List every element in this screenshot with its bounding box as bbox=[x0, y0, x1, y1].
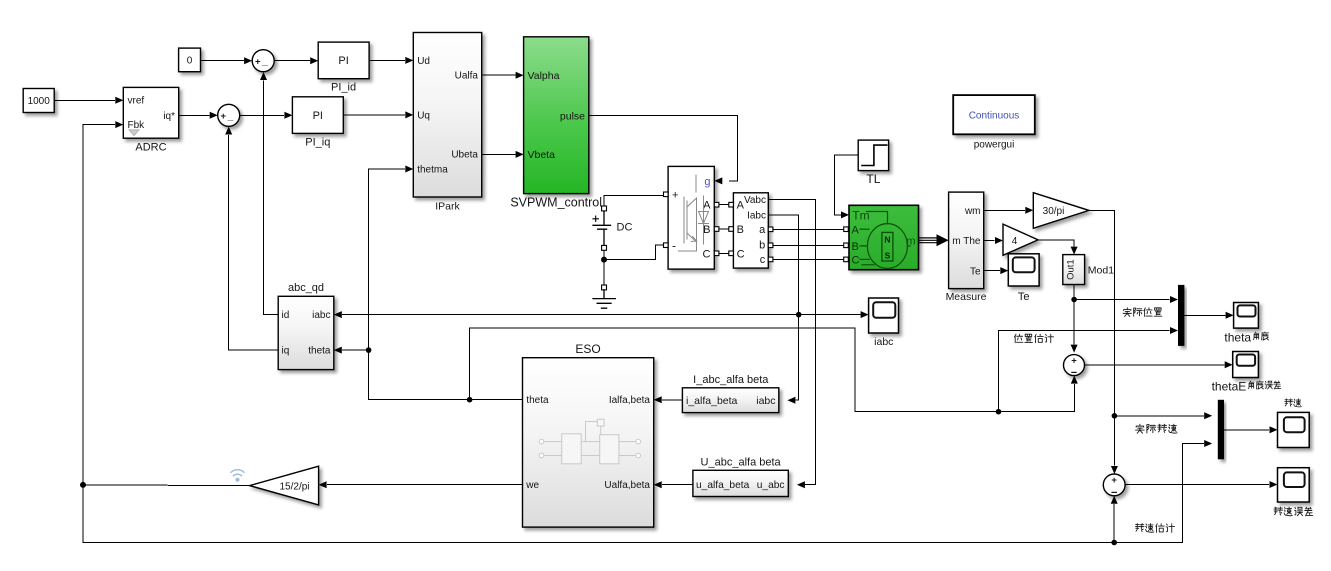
svg-text:DC: DC bbox=[617, 222, 633, 234]
scope theta angle bbox=[1234, 303, 1259, 329]
svg-text:15/2/pi: 15/2/pi bbox=[279, 481, 309, 492]
gain 15/2/pi bbox=[250, 466, 319, 505]
wire position estimate to sum3 minus bbox=[999, 384, 1075, 411]
svg-text:ESO: ESO bbox=[575, 342, 600, 356]
svg-text:theta: theta bbox=[526, 395, 549, 406]
svg-text:powergui: powergui bbox=[974, 139, 1015, 150]
svg-text:_: _ bbox=[261, 56, 268, 68]
svg-text:Uq: Uq bbox=[417, 110, 430, 121]
svg-text:we: we bbox=[525, 480, 539, 491]
wire bottom line up to sum4 minus bbox=[1113, 505, 1115, 543]
svg-text:C: C bbox=[852, 255, 860, 267]
svg-text:−: − bbox=[1071, 367, 1077, 379]
port square meas A bbox=[729, 202, 734, 207]
wire mux1 to theta scope bbox=[1184, 314, 1224, 316]
mux1 theta bbox=[1178, 285, 1184, 346]
svg-text:U_abc_alfa beta: U_abc_alfa beta bbox=[701, 456, 782, 468]
svg-text:Te: Te bbox=[1018, 291, 1030, 303]
wire PI_iq to IPark Uq bbox=[343, 114, 404, 116]
wire bridge A to measurement A bbox=[719, 204, 729, 206]
wifi logging badge bbox=[231, 470, 244, 482]
wire bridge B to measurement B bbox=[719, 228, 729, 230]
svg-text:i_alfa_beta: i_alfa_beta bbox=[686, 395, 738, 407]
port square ground bbox=[602, 285, 607, 290]
svg-text:0: 0 bbox=[187, 56, 193, 67]
subsystem IPark bbox=[413, 33, 481, 198]
svg-text:Ubeta: Ubeta bbox=[451, 150, 478, 161]
svg-text:Ud: Ud bbox=[417, 56, 430, 67]
wire ESO theta output bbox=[369, 350, 523, 400]
svg-text:S: S bbox=[885, 250, 891, 260]
svg-text:vref: vref bbox=[128, 95, 145, 106]
svg-text:PI: PI bbox=[313, 110, 323, 122]
sum junction S2 bbox=[218, 104, 240, 126]
gain 30/pi bbox=[1033, 193, 1089, 229]
svg-text:A: A bbox=[703, 200, 711, 212]
svg-text:iq*: iq* bbox=[163, 111, 175, 122]
svg-text:iabc: iabc bbox=[312, 310, 330, 321]
svg-text:m: m bbox=[906, 236, 915, 248]
wire 1000 to ADRC vref bbox=[54, 99, 114, 101]
wire iq feedback into sum2 bottom bbox=[229, 135, 279, 350]
wire DC minus to ground bbox=[603, 260, 605, 285]
mux2 speed bbox=[1218, 400, 1224, 460]
wire position estimate up to mux1 bbox=[999, 331, 1170, 412]
wire pulse to bridge g bbox=[589, 116, 738, 181]
DC voltage source battery bbox=[593, 211, 611, 246]
port square bridge minus bbox=[664, 243, 669, 248]
label position estimate bbox=[1014, 334, 1022, 343]
wire iabc line to iabc scope bbox=[799, 314, 860, 316]
svg-text:Out1: Out1 bbox=[1066, 259, 1077, 280]
svg-text:Ualfa: Ualfa bbox=[455, 71, 479, 82]
label actual position bbox=[1123, 308, 1131, 317]
scope Te bbox=[1008, 254, 1039, 286]
port square meas a bbox=[768, 227, 773, 232]
PI controller PI_id bbox=[318, 42, 369, 79]
svg-text:PI_iq: PI_iq bbox=[305, 136, 330, 148]
svg-text:iabc: iabc bbox=[756, 395, 775, 407]
sum junction S3 bbox=[1064, 355, 1085, 376]
universal bridge inverter bbox=[668, 166, 714, 269]
PI controller PI_iq bbox=[292, 97, 343, 134]
wire meas c to motor C bbox=[773, 258, 844, 260]
port square battery bottom bbox=[602, 245, 607, 250]
node position estimate junction bbox=[996, 409, 1002, 415]
port square meas b bbox=[768, 243, 773, 248]
svg-text:thetaE: thetaE bbox=[1212, 379, 1247, 393]
port square motor C bbox=[844, 257, 849, 262]
svg-text:b: b bbox=[759, 240, 765, 252]
svg-text:Tm: Tm bbox=[852, 208, 869, 222]
svg-text:a: a bbox=[759, 224, 766, 236]
svg-text:C: C bbox=[737, 248, 745, 260]
svg-text:Valpha: Valpha bbox=[528, 70, 560, 82]
gain 4 bbox=[1003, 224, 1038, 255]
wire TL to motor Tm bbox=[835, 155, 859, 215]
wire iabc line into abc_qd bbox=[343, 314, 799, 316]
svg-text:IPark: IPark bbox=[435, 201, 460, 213]
svg-text:B: B bbox=[703, 224, 710, 236]
wire Out1 down to mux1 and sum3 bbox=[1074, 285, 1169, 344]
wire sum3 to thetaE scope bbox=[1085, 364, 1224, 366]
svg-text:PI_id: PI_id bbox=[331, 82, 356, 94]
wire Fbk feedback vertical bbox=[83, 125, 115, 485]
wire sum1 to PI_id bbox=[274, 60, 309, 62]
port square meas c bbox=[768, 257, 773, 262]
svg-text:Continuous: Continuous bbox=[969, 110, 1020, 121]
wire meas a to motor A bbox=[773, 228, 844, 230]
wire gain output to feedback node bbox=[83, 484, 250, 487]
wire wm to gain 30/pi bbox=[984, 209, 1025, 211]
sum junction S1 bbox=[252, 50, 274, 72]
svg-text:TL: TL bbox=[866, 172, 880, 186]
svg-text:pulse: pulse bbox=[560, 110, 585, 122]
port square motor B bbox=[844, 243, 849, 248]
label speed error bbox=[1274, 507, 1283, 515]
port square bridge plus bbox=[664, 192, 669, 197]
wire Te to scope bbox=[984, 270, 1000, 272]
wire actual speed to mux2 bbox=[1114, 415, 1203, 417]
node Iabc junction on iabc line bbox=[796, 312, 802, 318]
svg-text:m: m bbox=[952, 236, 960, 247]
node bottom line junction bbox=[1111, 540, 1117, 546]
svg-text:ADRC: ADRC bbox=[135, 142, 166, 154]
wire 30/pi output actual speed line bbox=[1089, 210, 1115, 465]
wire DC minus to bridge minus bbox=[604, 245, 664, 259]
wire mux2 to speed scope bbox=[1224, 429, 1269, 431]
svg-text:wm: wm bbox=[964, 206, 981, 217]
wire sum4 to speed error scope bbox=[1125, 484, 1269, 486]
svg-text:c: c bbox=[760, 254, 766, 266]
scope iabc bbox=[869, 298, 899, 333]
ESO ghost preview sketch bbox=[539, 419, 640, 464]
node actual speed junction bbox=[1112, 413, 1118, 419]
badge gray triangle under Fbk bbox=[129, 130, 139, 136]
subsystem SVPWM_control bbox=[524, 37, 589, 194]
node speed feedback junction bbox=[80, 482, 86, 488]
svg-text:Iabc: Iabc bbox=[747, 211, 766, 222]
node theta junction bbox=[366, 347, 372, 353]
wire sum2 to PI_iq bbox=[240, 114, 284, 116]
node DC minus junction bbox=[601, 257, 607, 263]
port square battery top bbox=[602, 206, 607, 211]
svg-text:+: + bbox=[1071, 355, 1077, 366]
port square motor A bbox=[844, 227, 849, 232]
wire bridge C to measurement C bbox=[719, 252, 729, 254]
wire IPark Ubeta to SVPWM Vbeta bbox=[482, 153, 515, 155]
svg-text:−: − bbox=[1111, 487, 1117, 499]
svg-text:+: + bbox=[255, 57, 261, 68]
scope speed bbox=[1278, 412, 1310, 447]
wire ADRC iq* to sum2 bbox=[179, 114, 209, 116]
svg-text:abc_qd: abc_qd bbox=[288, 282, 324, 294]
wire theta to IPark thetma bbox=[369, 169, 405, 350]
three-phase VI measurement block bbox=[733, 193, 768, 268]
label speed estimate bbox=[1135, 524, 1144, 532]
svg-text:Ialfa,beta: Ialfa,beta bbox=[609, 395, 651, 406]
outport block Out1 / Mod1 bbox=[1063, 255, 1085, 285]
sum junction S4 bbox=[1103, 474, 1125, 496]
ground symbol bbox=[593, 290, 615, 308]
svg-text:C: C bbox=[703, 248, 711, 260]
svg-text:-: - bbox=[672, 239, 676, 253]
port square bridge A bbox=[714, 202, 719, 207]
wire Iabc down to I_abc iabc bbox=[768, 215, 798, 400]
node Out1 junction bbox=[1071, 297, 1077, 303]
svg-text:iq: iq bbox=[282, 346, 290, 357]
svg-text:N: N bbox=[884, 235, 890, 245]
subsystem Measure bbox=[949, 192, 984, 289]
wire 0 to sum1 bbox=[201, 60, 244, 62]
label actual speed bbox=[1136, 424, 1145, 433]
svg-text:Ualfa,beta: Ualfa,beta bbox=[604, 480, 650, 491]
svg-text:Te: Te bbox=[970, 266, 981, 277]
svg-text:iabc: iabc bbox=[874, 336, 893, 348]
port square bridge B bbox=[714, 227, 719, 232]
constant block 0 bbox=[179, 48, 201, 72]
wire speed feedback bottom line bbox=[83, 444, 1203, 543]
svg-text:Mod1: Mod1 bbox=[1088, 265, 1114, 277]
svg-text:+: + bbox=[672, 189, 678, 201]
svg-text:u_abc: u_abc bbox=[757, 480, 785, 491]
svg-text:Fbk: Fbk bbox=[128, 120, 146, 131]
wire U_abc to ESO Ualfa,beta bbox=[663, 484, 693, 486]
svg-text:SVPWM_control: SVPWM_control bbox=[510, 196, 602, 210]
subsystem ADRC bbox=[123, 87, 178, 138]
svg-text:theta: theta bbox=[1224, 330, 1251, 344]
wire id feedback into sum1 bottom bbox=[264, 81, 279, 315]
port square meas B bbox=[729, 227, 734, 232]
wire motor m bus to Measure bbox=[919, 238, 938, 243]
svg-text:g: g bbox=[704, 176, 710, 188]
svg-text:thetma: thetma bbox=[417, 165, 448, 176]
svg-text:B: B bbox=[737, 224, 744, 236]
svg-text:I_abc_alfa beta: I_abc_alfa beta bbox=[693, 374, 769, 386]
svg-text:A: A bbox=[852, 224, 860, 236]
svg-text:PI: PI bbox=[338, 55, 348, 67]
step source TL bbox=[858, 140, 888, 171]
wire ESO we output to gain bbox=[328, 484, 523, 486]
svg-text:B: B bbox=[852, 241, 859, 253]
wire theta into abc_qd bbox=[343, 349, 369, 351]
svg-text:Vbeta: Vbeta bbox=[528, 149, 556, 161]
svg-text:+: + bbox=[1111, 475, 1117, 486]
wire meas b to motor B bbox=[773, 244, 844, 246]
constant block 1000 bbox=[23, 89, 54, 113]
PMSM motor block bbox=[849, 205, 919, 269]
label speed bbox=[1285, 399, 1293, 406]
svg-text:30/pi: 30/pi bbox=[1043, 206, 1065, 217]
wire IPark Ualfa to SVPWM Valpha bbox=[482, 74, 515, 76]
wire gain 4 to Out1 bbox=[1038, 240, 1074, 246]
port square bridge C bbox=[714, 251, 719, 256]
svg-text:+: + bbox=[221, 111, 227, 122]
wire The to gain 4 bbox=[984, 240, 995, 242]
IGBT diode sketch inside bridge bbox=[679, 175, 709, 251]
wire Vabc down to u_abc bbox=[768, 200, 815, 485]
powergui block bbox=[953, 95, 1035, 134]
svg-text:u_alfa_beta: u_alfa_beta bbox=[696, 480, 750, 491]
svg-text:theta: theta bbox=[308, 346, 331, 357]
svg-text:1000: 1000 bbox=[28, 96, 51, 107]
svg-text:_: _ bbox=[227, 110, 234, 122]
scope speed error bbox=[1278, 468, 1310, 502]
svg-text:The: The bbox=[963, 236, 981, 247]
scope thetaE error bbox=[1233, 352, 1259, 378]
node theta branch junction bbox=[467, 397, 473, 403]
svg-text:Vabc: Vabc bbox=[744, 195, 766, 206]
wire position estimate branch bbox=[470, 328, 999, 412]
svg-text:id: id bbox=[282, 310, 290, 321]
wire DC plus to bridge bbox=[604, 196, 664, 207]
wire I_abc to ESO Ialfa,beta bbox=[663, 399, 683, 401]
wire PI_id to IPark Ud bbox=[369, 59, 404, 61]
svg-text:Measure: Measure bbox=[946, 291, 987, 303]
port square meas C bbox=[729, 251, 734, 256]
svg-text:4: 4 bbox=[1012, 236, 1018, 247]
